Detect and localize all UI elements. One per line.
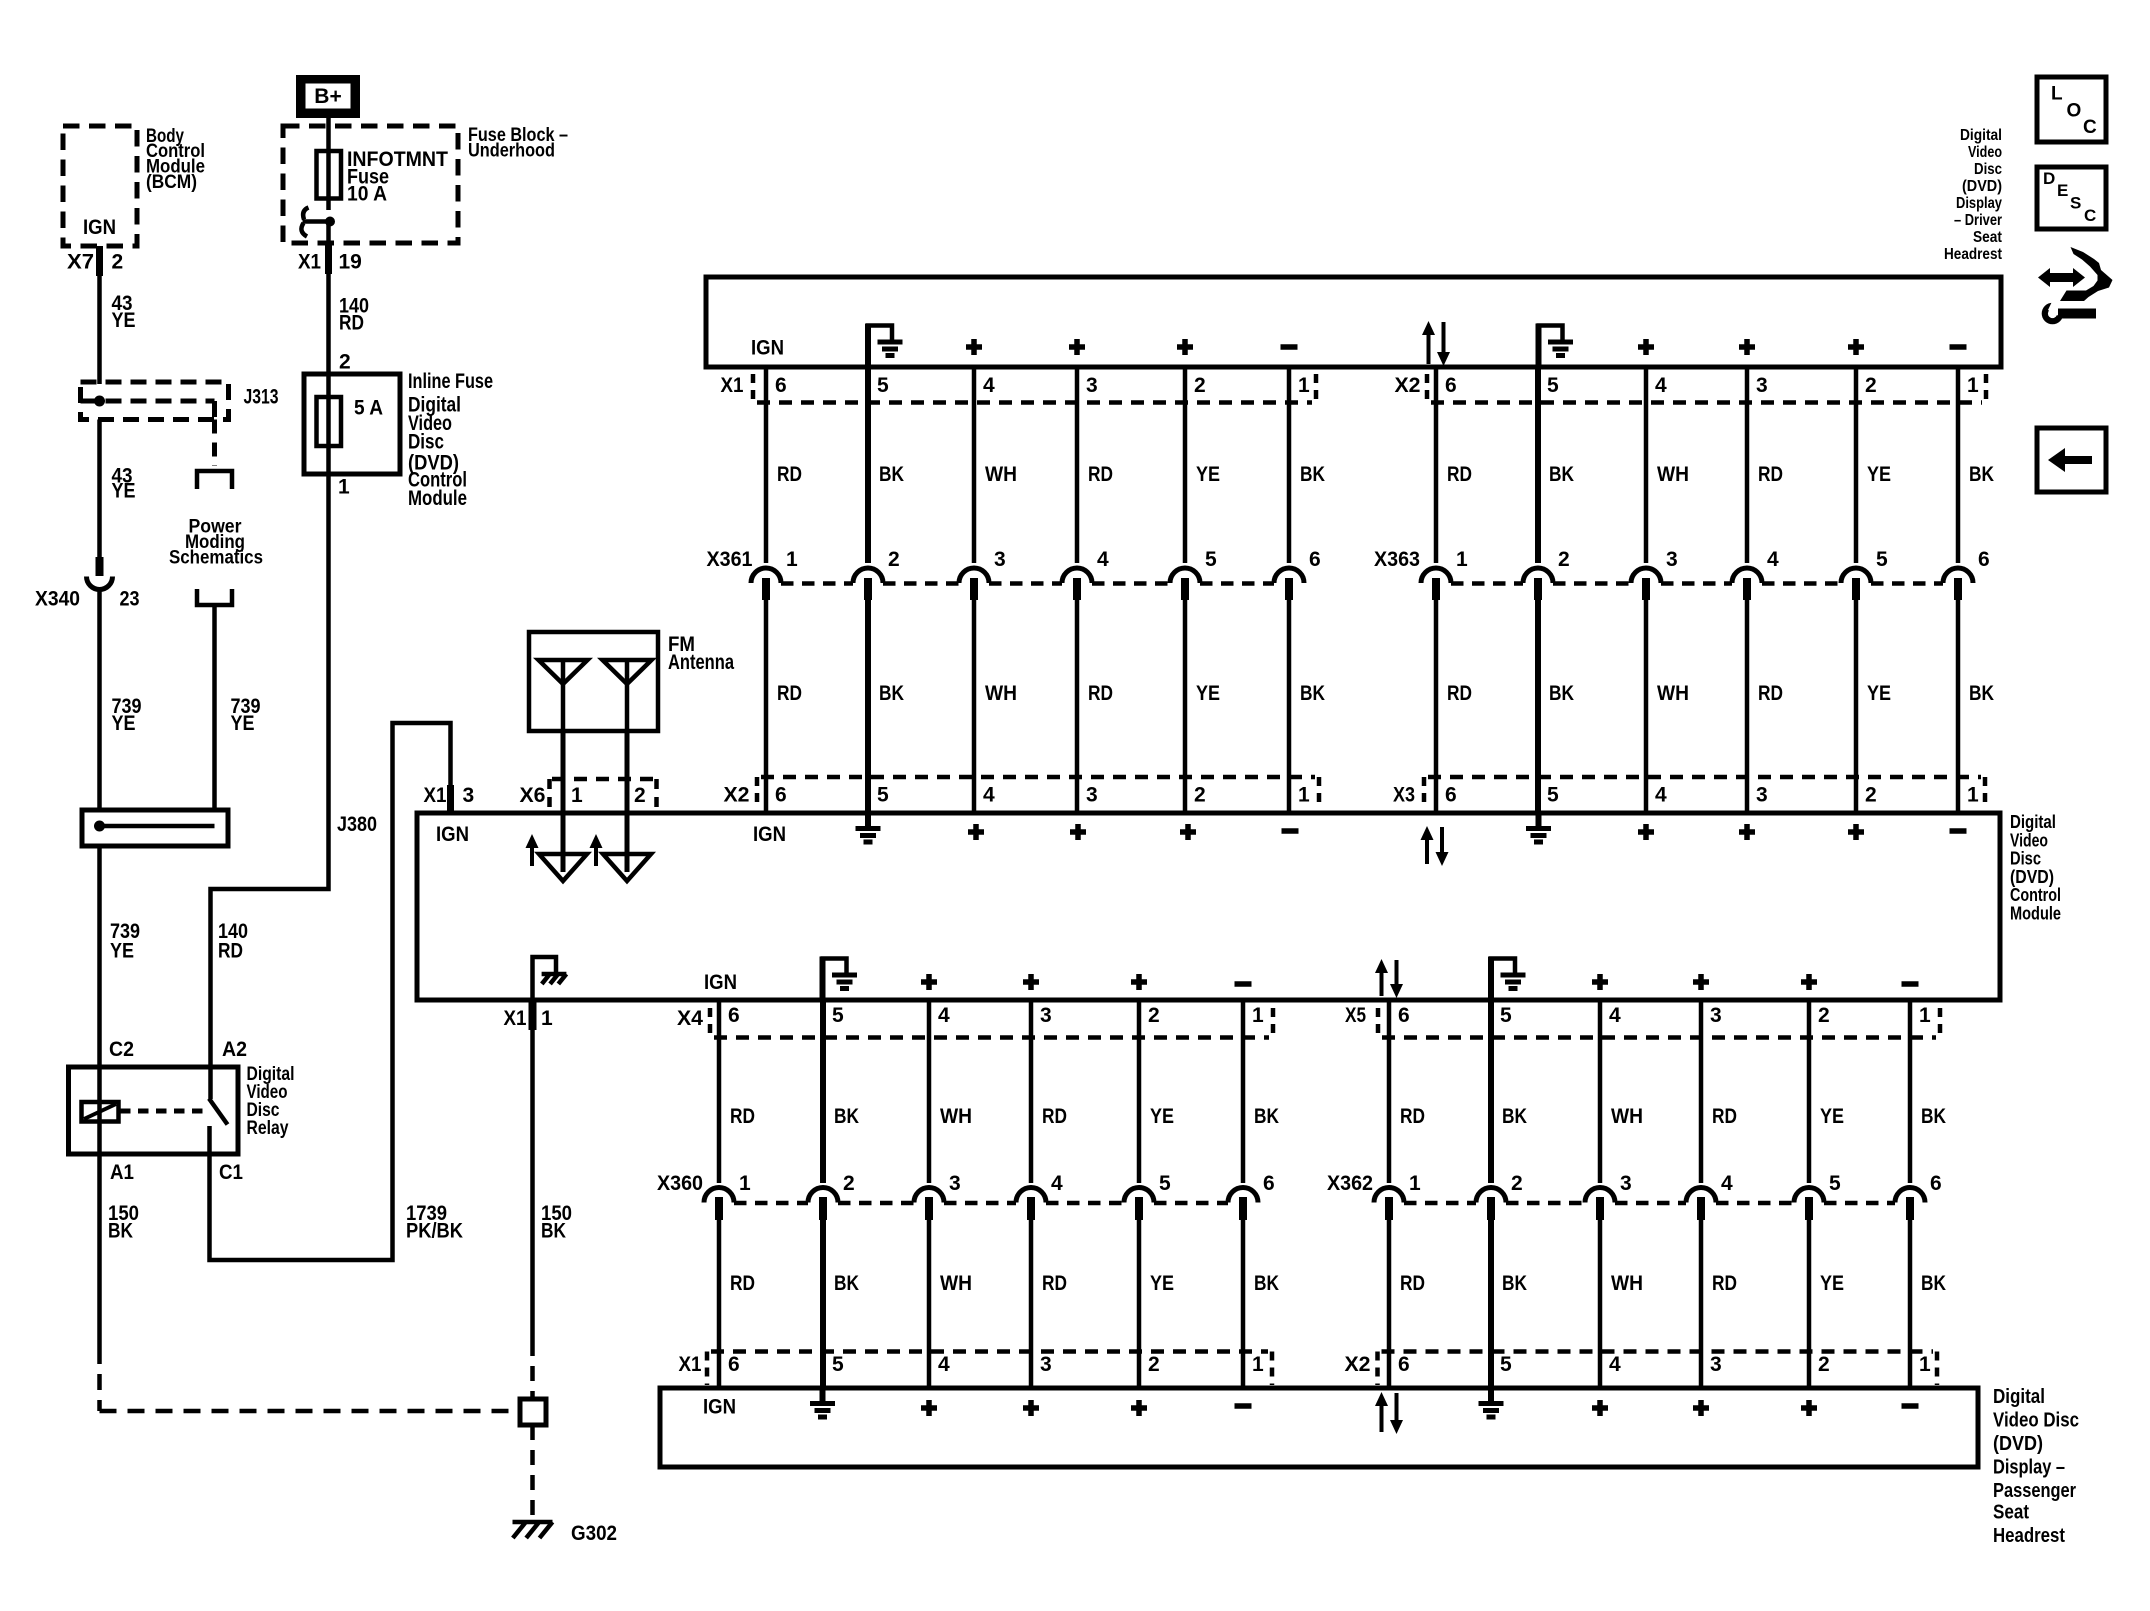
wire color label RD upper — [1088, 463, 1113, 486]
svg-text:2: 2 — [1148, 1353, 1160, 1376]
svg-text:PK/BK: PK/BK — [406, 1220, 463, 1243]
svg-text:A2: A2 — [222, 1038, 247, 1061]
wire color label RD lower — [1088, 682, 1113, 705]
wire BK module X5-5 to passenger display — [1488, 1000, 1494, 1388]
svg-text:2: 2 — [634, 784, 646, 807]
svg-text:2: 2 — [843, 1172, 855, 1195]
svg-text:5: 5 — [1205, 548, 1217, 571]
ground symbol at module X3-5 — [1526, 813, 1551, 842]
wire BK driver display X2-1 to module — [1956, 367, 1961, 813]
wire color label BK upper — [1921, 1105, 1946, 1128]
svg-text:5 A: 5 A — [354, 397, 383, 420]
svg-text:BK: BK — [1254, 1105, 1279, 1128]
wire color label BK upper — [1254, 1105, 1279, 1128]
svg-text:5: 5 — [1159, 1172, 1171, 1195]
fuse block underhood dashed box — [283, 126, 458, 243]
svg-text:1: 1 — [571, 784, 583, 807]
label Digital Video Disc Relay — [247, 1064, 295, 1139]
svg-text:5: 5 — [832, 1353, 844, 1376]
plus symbols at module X3 — [1638, 824, 1864, 840]
svg-text:2: 2 — [1194, 784, 1206, 807]
wire WH driver display X1-4 to module — [972, 367, 977, 813]
svg-text:6: 6 — [1263, 1172, 1275, 1195]
plus symbols in passenger display X2 — [1592, 1400, 1817, 1416]
svg-text:IGN: IGN — [83, 216, 116, 239]
svg-text:4: 4 — [1051, 1172, 1063, 1195]
svg-text:X2: X2 — [724, 784, 750, 807]
svg-text:3: 3 — [463, 784, 475, 807]
dashed ground wire to grommet — [100, 1409, 512, 1414]
wire 739 YE X340 to J380 — [97, 600, 102, 812]
icon LOC box — [2037, 77, 2106, 142]
icon wrench — [2042, 301, 2096, 325]
svg-text:6: 6 — [728, 1004, 740, 1027]
svg-text:BK: BK — [541, 1220, 566, 1243]
digital video disc relay box — [69, 1067, 239, 1154]
svg-text:1: 1 — [1252, 1353, 1264, 1376]
ground G302 — [513, 1522, 618, 1545]
wire YE module X4-2 to passenger display — [1137, 1000, 1142, 1388]
inline fuse 5A box — [304, 374, 400, 474]
svg-text:X6: X6 — [520, 784, 546, 807]
svg-text:X361: X361 — [707, 548, 753, 571]
dashed link J313 to power moding schematics — [212, 401, 217, 466]
label Body Control Module (BCM) — [146, 126, 205, 193]
label 739 YE (lower) — [110, 920, 140, 963]
wire color label BK lower — [1300, 682, 1325, 705]
data up-down arrows at module X5-6 — [1375, 959, 1403, 998]
module antenna input 1 with up arrow — [526, 813, 588, 881]
svg-text:Disc: Disc — [408, 431, 444, 454]
svg-text:5: 5 — [877, 374, 889, 397]
wire color label BK upper — [1549, 463, 1574, 486]
wire 43 YE J313 to X340 — [97, 420, 102, 561]
relay pin labels C2 A2 — [109, 1038, 247, 1061]
svg-text:5: 5 — [1876, 548, 1888, 571]
wire color label WH upper — [1657, 463, 1689, 486]
svg-text:6: 6 — [1309, 548, 1321, 571]
module pin X1 3 IGN input — [424, 784, 475, 813]
svg-text:4: 4 — [1609, 1004, 1621, 1027]
wire color label WH lower — [940, 1272, 972, 1295]
label 739 YE (left of pair) — [112, 695, 142, 735]
svg-text:X1: X1 — [721, 374, 744, 397]
connector X3 of module — [1393, 777, 1985, 807]
svg-text:Video: Video — [2010, 831, 2048, 851]
connector X5 of module — [1345, 1004, 1940, 1038]
minus symbol in driver display X1-1 — [1281, 344, 1298, 350]
ground symbol in passenger display X2-5 — [1479, 1388, 1504, 1417]
svg-text:(DVD): (DVD) — [1993, 1432, 2043, 1455]
label Digital Video Disc DVD Display Passenger Seat Headrest — [1993, 1385, 2079, 1547]
fuse output switch hook and junction — [301, 208, 335, 237]
wire 43 YE BCM to J313 — [97, 276, 102, 384]
relay coil — [82, 1067, 119, 1154]
svg-text:10 A: 10 A — [347, 183, 387, 206]
svg-text:X7: X7 — [67, 251, 94, 274]
svg-text:1: 1 — [1919, 1353, 1931, 1376]
connector X2 of passenger display — [1345, 1352, 1938, 1386]
in-line connector X340 pin 23 — [35, 557, 140, 611]
wire color label YE lower — [1867, 682, 1891, 705]
svg-text:RD: RD — [1088, 682, 1113, 705]
svg-text:A1: A1 — [110, 1161, 134, 1184]
wire 739 YE J380 to relay C2 — [97, 846, 102, 1065]
wire color label YE lower — [1820, 1272, 1844, 1295]
wire color label WH lower — [1657, 682, 1689, 705]
svg-text:6: 6 — [1445, 784, 1457, 807]
svg-text:5: 5 — [1829, 1172, 1841, 1195]
net IGN at module X1-3 — [436, 823, 469, 846]
minus symbol in passenger display X2-1 — [1902, 1403, 1919, 1409]
svg-text:3: 3 — [1756, 374, 1768, 397]
wire color label WH lower — [985, 682, 1017, 705]
wire color label WH upper — [985, 463, 1017, 486]
svg-text:Headrest: Headrest — [1993, 1524, 2065, 1547]
svg-text:– Driver: – Driver — [1954, 212, 2002, 229]
svg-text:4: 4 — [1767, 548, 1779, 571]
plus symbols in passenger display X1 — [921, 1400, 1147, 1416]
svg-text:5: 5 — [877, 784, 889, 807]
wire color label RD upper — [730, 1105, 755, 1128]
svg-text:YE: YE — [1820, 1272, 1844, 1295]
svg-text:BK: BK — [1549, 682, 1574, 705]
plus symbols in driver display X1 — [966, 339, 1193, 355]
svg-text:1: 1 — [739, 1172, 751, 1195]
svg-text:2: 2 — [339, 351, 351, 374]
connector X2 of module — [724, 777, 1320, 807]
svg-text:BK: BK — [1549, 463, 1574, 486]
svg-text:C1: C1 — [219, 1161, 243, 1184]
wire YE driver display X1-2 to module — [1183, 367, 1188, 813]
pin X7 2 of BCM — [67, 246, 123, 276]
svg-text:X2: X2 — [1395, 374, 1421, 397]
pin X1 19 of fuse block — [298, 244, 362, 274]
power moding schematics off-page bracket (top) — [197, 471, 232, 489]
ground symbol in driver display X2-5 — [1537, 324, 1574, 368]
wire color label RD lower — [777, 682, 802, 705]
svg-text:D: D — [2043, 169, 2055, 188]
label 150 BK (right) — [541, 1202, 572, 1243]
svg-text:4: 4 — [1655, 374, 1667, 397]
svg-text:Schematics: Schematics — [169, 548, 263, 569]
net IGN at module X2-6 — [753, 823, 786, 846]
svg-text:2: 2 — [1511, 1172, 1523, 1195]
icon back arrow box — [2037, 428, 2106, 492]
svg-text:4: 4 — [1721, 1172, 1733, 1195]
wire color label RD upper — [1042, 1105, 1067, 1128]
svg-text:J380: J380 — [337, 813, 377, 836]
svg-text:BK: BK — [1300, 682, 1325, 705]
svg-text:Display –: Display – — [1993, 1456, 2065, 1479]
svg-text:1: 1 — [338, 476, 350, 499]
svg-text:BK: BK — [1969, 463, 1994, 486]
label INFOTMNT Fuse 10 A — [347, 148, 448, 206]
minus symbol at module X4-1 — [1235, 981, 1252, 987]
splice J380 box — [82, 810, 228, 846]
svg-text:6: 6 — [1978, 548, 1990, 571]
wire color label BK upper — [1300, 463, 1325, 486]
svg-text:3: 3 — [1710, 1353, 1722, 1376]
svg-text:3: 3 — [994, 548, 1006, 571]
svg-text:O: O — [2067, 101, 2082, 122]
wire color label BK lower — [1502, 1272, 1527, 1295]
svg-text:YE: YE — [112, 480, 136, 503]
connector X1 of passenger display — [679, 1352, 1273, 1386]
svg-text:Digital: Digital — [1960, 127, 2002, 144]
svg-text:RD: RD — [1712, 1105, 1737, 1128]
label 1739 PK/BK — [406, 1202, 463, 1243]
antenna element 2 — [603, 660, 652, 731]
svg-text:S: S — [2070, 194, 2081, 213]
data up-down arrows at module X3-6 — [1421, 826, 1449, 866]
svg-text:1: 1 — [786, 548, 798, 571]
wire color label WH upper — [1611, 1105, 1643, 1128]
plus symbols in driver display X2 — [1638, 339, 1864, 355]
svg-text:5: 5 — [832, 1004, 844, 1027]
svg-text:3: 3 — [1666, 548, 1678, 571]
svg-text:3: 3 — [1040, 1353, 1052, 1376]
in-line connector X361 — [707, 548, 1321, 584]
in-line connector X362 — [1327, 1172, 1942, 1203]
svg-text:2: 2 — [1148, 1004, 1160, 1027]
svg-text:IGN: IGN — [703, 1396, 736, 1419]
digital video disc DVD display passenger seat headrest box — [660, 1388, 1978, 1467]
wire color label RD lower — [1447, 682, 1472, 705]
connector X4 of module — [677, 1004, 1273, 1038]
wire color label YE upper — [1820, 1105, 1844, 1128]
svg-text:BK: BK — [879, 682, 904, 705]
net IGN in passenger display — [703, 1396, 736, 1419]
label Digital Video Disc DVD Display Driver Seat Headrest — [1944, 127, 2003, 263]
wire 140 RD inline fuse down and left to relay A2 — [211, 472, 329, 1065]
svg-text:WH: WH — [985, 682, 1017, 705]
svg-text:3: 3 — [1086, 374, 1098, 397]
svg-text:2: 2 — [1865, 784, 1877, 807]
wire antenna 1 to X6-1 — [561, 731, 566, 813]
svg-text:RD: RD — [1400, 1105, 1425, 1128]
wire 1739 PK/BK relay C1 to module X1-3 — [210, 723, 451, 1260]
svg-text:YE: YE — [112, 309, 136, 332]
wire color label YE lower — [1150, 1272, 1174, 1295]
connector X1 of driver display — [721, 374, 1317, 403]
label J313 — [244, 386, 279, 409]
antenna element 1 — [539, 660, 588, 731]
svg-text:WH: WH — [985, 463, 1017, 486]
wire BK driver display X1-1 to module — [1287, 367, 1292, 813]
svg-text:Video Disc: Video Disc — [1993, 1409, 2079, 1432]
svg-text:RD: RD — [1042, 1272, 1067, 1295]
wire RD module X5-6 to passenger display — [1387, 1000, 1392, 1388]
wire color label RD lower — [1042, 1272, 1067, 1295]
label 140 RD (lower) — [218, 920, 248, 963]
svg-text:4: 4 — [983, 784, 995, 807]
svg-text:3: 3 — [1086, 784, 1098, 807]
svg-text:BK: BK — [834, 1105, 859, 1128]
svg-text:1: 1 — [1456, 548, 1468, 571]
svg-text:WH: WH — [1611, 1272, 1643, 1295]
connector X6 pins 1 2 — [520, 779, 657, 810]
svg-text:5: 5 — [1547, 784, 1559, 807]
minus symbol in passenger display X1-1 — [1235, 1403, 1252, 1409]
svg-text:3: 3 — [1710, 1004, 1722, 1027]
wire color label YE lower — [1196, 682, 1220, 705]
svg-text:2: 2 — [1865, 374, 1877, 397]
svg-text:WH: WH — [940, 1272, 972, 1295]
svg-text:RD: RD — [1042, 1105, 1067, 1128]
pin 1 of inline fuse — [338, 476, 350, 499]
power moding schematics off-page bracket (bottom) — [197, 589, 232, 605]
svg-text:BK: BK — [1921, 1105, 1946, 1128]
ground symbol at module X5-5 — [1489, 957, 1526, 1001]
svg-text:Digital: Digital — [1993, 1385, 2045, 1408]
in-line connector X360 — [657, 1172, 1275, 1203]
svg-text:RD: RD — [1758, 463, 1783, 486]
ground symbol in driver display X1-5 — [866, 324, 903, 368]
svg-text:(BCM): (BCM) — [146, 172, 197, 193]
svg-text:Inline Fuse: Inline Fuse — [408, 370, 493, 393]
wire BK module X4-5 to passenger display — [820, 1000, 826, 1388]
plus symbols at module X4 — [921, 974, 1147, 990]
minus symbol in driver display X2-1 — [1950, 344, 1967, 350]
label Power Moding Schematics — [169, 517, 263, 569]
pin 2 of inline fuse — [339, 351, 351, 374]
svg-text:IGN: IGN — [753, 823, 786, 846]
svg-text:Disc: Disc — [1974, 161, 2002, 178]
splice pack J313 dashed box — [81, 382, 229, 420]
svg-text:X2: X2 — [1345, 1353, 1371, 1376]
wire color label BK upper — [1502, 1105, 1527, 1128]
label Fuse Block - Underhood — [468, 125, 568, 162]
net IGN at module X4-6 — [704, 971, 737, 994]
wire 739 YE power moding to J380 — [212, 605, 217, 812]
wire RD driver display X1-3 to module — [1075, 367, 1080, 813]
svg-text:2: 2 — [1818, 1353, 1830, 1376]
wire color label BK lower — [1549, 682, 1574, 705]
svg-text:BK: BK — [879, 463, 904, 486]
svg-text:Seat: Seat — [1993, 1501, 2029, 1524]
svg-text:X363: X363 — [1374, 548, 1420, 571]
svg-text:BK: BK — [1502, 1272, 1527, 1295]
wire BK module X5-1 to passenger display — [1908, 1000, 1913, 1388]
wire color label BK upper — [879, 463, 904, 486]
svg-text:6: 6 — [1445, 374, 1457, 397]
svg-text:5: 5 — [1500, 1004, 1512, 1027]
svg-text:X360: X360 — [657, 1172, 703, 1195]
svg-text:2: 2 — [112, 251, 124, 274]
relay contact switch — [120, 1065, 228, 1154]
svg-text:BK: BK — [1254, 1272, 1279, 1295]
svg-text:L: L — [2051, 84, 2063, 105]
svg-text:C: C — [2083, 117, 2097, 138]
label 739 YE (right of pair) — [231, 695, 261, 735]
wire RD driver display X2-6 to module — [1434, 367, 1439, 813]
relay pin labels A1 C1 — [110, 1161, 243, 1184]
wire color label RD upper — [1712, 1105, 1737, 1128]
svg-text:2: 2 — [1194, 374, 1206, 397]
body control module BCM dashed box — [63, 126, 137, 246]
svg-text:Module: Module — [2010, 904, 2061, 924]
svg-text:Disc: Disc — [2010, 849, 2041, 869]
svg-text:RD: RD — [1447, 682, 1472, 705]
svg-text:5: 5 — [1500, 1353, 1512, 1376]
module pin X1 1 ground output — [504, 1007, 554, 1030]
svg-text:RD: RD — [1712, 1272, 1737, 1295]
svg-text:Control: Control — [2010, 885, 2061, 905]
wire color label RD lower — [730, 1272, 755, 1295]
wire RD module X4-6 to passenger display — [717, 1000, 722, 1388]
wire BK driver display X2-5 to module — [1535, 367, 1541, 813]
svg-text:YE: YE — [1150, 1105, 1174, 1128]
svg-text:B+: B+ — [314, 85, 341, 108]
label J380 — [337, 813, 377, 836]
net IGN inside BCM — [83, 216, 116, 239]
svg-text:IGN: IGN — [704, 971, 737, 994]
module internal chassis ground at X1-1 — [533, 957, 567, 1000]
wire color label BK lower — [1254, 1272, 1279, 1295]
wire color label RD upper — [1758, 463, 1783, 486]
plus symbols at module X2 — [968, 824, 1196, 840]
svg-text:C2: C2 — [109, 1038, 134, 1061]
wire 150 BK relay A1 to ground path — [97, 1154, 102, 1411]
svg-text:6: 6 — [1930, 1172, 1942, 1195]
wire RD module X5-3 to passenger display — [1699, 1000, 1704, 1388]
svg-text:G302: G302 — [571, 1522, 617, 1545]
svg-text:6: 6 — [775, 374, 787, 397]
svg-text:2: 2 — [888, 548, 900, 571]
label Inline Fuse DVD Control Module — [408, 370, 493, 510]
wire color label RD lower — [1712, 1272, 1737, 1295]
wire color label RD upper — [1447, 463, 1472, 486]
ground symbol at module X2-5 — [856, 813, 881, 842]
data up-down arrows in passenger display X2-6 — [1375, 1392, 1403, 1434]
svg-text:YE: YE — [1867, 463, 1891, 486]
svg-text:J313: J313 — [244, 386, 279, 409]
svg-text:BK: BK — [108, 1220, 133, 1243]
svg-text:RD: RD — [1758, 682, 1783, 705]
icon DESC box — [2037, 167, 2106, 229]
svg-text:YE: YE — [110, 940, 134, 963]
svg-text:YE: YE — [1150, 1272, 1174, 1295]
wire B+ to fuse (140 RD feed) — [326, 116, 331, 152]
wire color label BK lower — [879, 682, 904, 705]
dashed wire grommet to G302 — [530, 1425, 535, 1519]
svg-text:Module: Module — [408, 487, 467, 510]
svg-text:4: 4 — [938, 1004, 950, 1027]
wire WH module X5-4 to passenger display — [1598, 1000, 1603, 1388]
wire RD module X4-3 to passenger display — [1029, 1000, 1034, 1388]
svg-text:6: 6 — [1398, 1353, 1410, 1376]
svg-text:YE: YE — [1196, 682, 1220, 705]
svg-text:1: 1 — [1252, 1004, 1264, 1027]
svg-text:RD: RD — [730, 1272, 755, 1295]
fuse INFOTMNT 10A symbol — [317, 150, 342, 210]
svg-text:6: 6 — [775, 784, 787, 807]
svg-text:Headrest: Headrest — [1944, 246, 2003, 263]
label 43 YE (lower) — [112, 465, 136, 503]
ground symbol in passenger display X1-5 — [810, 1388, 835, 1417]
svg-text:RD: RD — [218, 940, 243, 963]
wire color label YE upper — [1196, 463, 1220, 486]
battery feed B+ symbol — [296, 75, 360, 118]
wire YE module X5-2 to passenger display — [1807, 1000, 1812, 1388]
wire WH driver display X2-4 to module — [1644, 367, 1649, 813]
svg-text:1: 1 — [1967, 784, 1979, 807]
svg-text:BK: BK — [1921, 1272, 1946, 1295]
wire 140 RD fuse block to inline fuse — [326, 274, 331, 376]
svg-text:BK: BK — [834, 1272, 859, 1295]
svg-text:X5: X5 — [1345, 1004, 1366, 1027]
